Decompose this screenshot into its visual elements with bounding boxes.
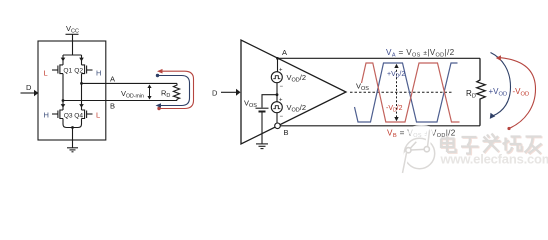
svg-text:A: A	[282, 48, 287, 57]
svg-text:L: L	[96, 111, 100, 120]
svg-text:A: A	[110, 75, 115, 84]
svg-text:−: −	[280, 114, 284, 120]
svg-text:Q1: Q1	[63, 67, 72, 74]
svg-text:L: L	[44, 69, 48, 78]
svg-text:www.elecfans.com: www.elecfans.com	[440, 152, 548, 167]
svg-text:H: H	[96, 69, 101, 78]
svg-text:−: −	[280, 84, 284, 90]
svg-text:H: H	[44, 111, 49, 120]
svg-text:D: D	[26, 83, 32, 92]
svg-text:D: D	[212, 89, 218, 98]
svg-text:B: B	[110, 102, 115, 111]
svg-text:+: +	[279, 68, 283, 74]
svg-text:B: B	[284, 128, 289, 137]
svg-text:+: +	[279, 98, 283, 104]
svg-text:VA = VOS ±|VOD|/2: VA = VOS ±|VOD|/2	[386, 48, 455, 59]
svg-text:Q4: Q4	[74, 113, 83, 120]
svg-text:Q3: Q3	[64, 113, 73, 120]
svg-text:Q2: Q2	[74, 67, 83, 74]
